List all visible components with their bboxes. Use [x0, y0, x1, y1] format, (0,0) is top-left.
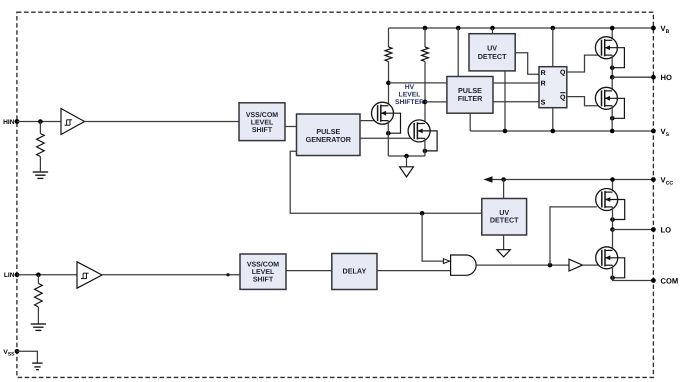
- wire low-side bottom source to COM: [613, 265, 654, 280]
- svg-text:DELAY: DELAY: [343, 266, 367, 275]
- node VCC rail / drain: [610, 177, 615, 182]
- pin VCC: [651, 176, 673, 187]
- svg-text:HIN: HIN: [3, 119, 15, 126]
- node VS rail / UV detect: [503, 129, 508, 134]
- node VS rail / latch: [551, 129, 556, 134]
- wire VB rail to latch top: [552, 28, 554, 67]
- svg-text:SHIFTER: SHIFTER: [395, 99, 424, 106]
- wire HO to high-side bottom MOSFET drain: [611, 77, 613, 91]
- ground (HIN resistor): [33, 172, 48, 178]
- wire VCC rail to low-side top MOSFET drain: [612, 180, 614, 193]
- wire LIN junction down to resistor: [37, 275, 39, 284]
- net VCC rail: [489, 179, 653, 181]
- wire VCC rail to UV detect (low side) top: [503, 180, 505, 199]
- svg-text:S: S: [541, 99, 546, 106]
- pin LIN: [4, 272, 20, 279]
- node on LIN wire: [226, 273, 229, 276]
- transistor low-side output bottom NMOS: [596, 247, 625, 280]
- svg-text:GENERATOR: GENERATOR: [306, 135, 352, 144]
- wire VB rail to high-side top MOSFET drain: [611, 28, 613, 40]
- wire AND output: [476, 264, 569, 266]
- resistor HIN pulldown: [37, 134, 45, 157]
- pin LO: [651, 226, 671, 235]
- node LIN junction: [36, 273, 41, 278]
- svg-text:SHIFT: SHIFT: [252, 127, 273, 134]
- node VS rail / source: [610, 129, 615, 134]
- wire level shift to delay: [286, 270, 332, 272]
- ground (LIN resistor): [31, 324, 46, 330]
- wire pulse generator bottom output to HV level shifter right gate: [360, 137, 414, 139]
- pin VSS: [3, 349, 19, 357]
- resistor HV level shifter right: [422, 47, 429, 62]
- wire UV detect (low) down arrow: [497, 235, 510, 257]
- block UV DETECT (high side): [469, 34, 515, 71]
- AND gate: [451, 255, 477, 275]
- wire LO to low-side bottom MOSFET drain: [612, 230, 614, 251]
- node VB rail to pulse filter: [456, 26, 461, 31]
- transistor HV level shifter left NMOS: [372, 102, 401, 135]
- svg-text:LIN: LIN: [4, 272, 15, 279]
- net VB rail: [389, 27, 654, 29]
- transistor high-side output top NMOS: [595, 37, 624, 70]
- wire low-side top source to LO: [612, 207, 614, 230]
- wire VSS to ground: [17, 351, 37, 363]
- node AND output junction: [548, 263, 553, 268]
- wire high-side top source to HO: [611, 55, 613, 77]
- node VB rail / drain: [610, 26, 615, 31]
- wire latch bottom to VS rail: [552, 108, 554, 131]
- svg-text:VSS/COM: VSS/COM: [247, 260, 279, 268]
- node enable branch junction: [420, 211, 425, 216]
- wire resistor to ground: [39, 157, 41, 173]
- pin HO: [651, 73, 672, 82]
- node LO junction: [610, 227, 615, 232]
- svg-text:COM: COM: [661, 277, 679, 286]
- wire pulse generator top output to HV level shifter left gate: [360, 120, 378, 122]
- net VS rail (internal): [470, 130, 653, 132]
- pin VS: [651, 127, 670, 138]
- wire HIN to input buffer: [17, 121, 61, 123]
- block VSS/COM LEVEL SHIFT (high side): [239, 103, 285, 141]
- label HV LEVEL SHIFTER: [395, 84, 424, 106]
- wire pulse filter output to latch S: [493, 101, 539, 103]
- wire LIN to input buffer: [17, 274, 77, 276]
- wire left drain to pulse filter input 1: [388, 82, 447, 84]
- block VSS/COM LEVEL SHIFT (low side): [240, 254, 286, 289]
- node VB rail to latch: [551, 26, 556, 31]
- svg-text:LEVEL: LEVEL: [252, 269, 275, 276]
- buffer low-side driver: [569, 259, 583, 271]
- wire latch Qbar to high-side bottom MOSFET gate: [567, 97, 602, 106]
- svg-text:DETECT: DETECT: [490, 216, 519, 225]
- wire pulse filter output to latch R2: [493, 82, 539, 84]
- svg-text:VSS/COM: VSS/COM: [246, 111, 278, 119]
- block UV DETECT (low side): [482, 199, 527, 236]
- schmitt trigger input buffer (LIN): [77, 262, 102, 288]
- block DELAY: [332, 254, 377, 290]
- resistor HV level shifter left: [385, 47, 392, 62]
- node VB rail to right resistor: [423, 26, 428, 31]
- wire level shift to pulse generator: [285, 126, 297, 128]
- transistor HV level shifter right NMOS: [408, 120, 437, 153]
- wire HO line: [612, 76, 653, 78]
- node left drain junction: [386, 81, 391, 86]
- wire pulse filter bottom to VS rail: [469, 113, 471, 131]
- svg-text:Q: Q: [560, 70, 566, 77]
- svg-text:FILTER: FILTER: [458, 94, 483, 103]
- pin VB: [651, 24, 670, 35]
- block PULSE FILTER: [447, 77, 493, 114]
- wire buffer to low-side bottom MOSFET gate: [583, 264, 602, 266]
- wire junction up to low-side top MOSFET gate: [550, 207, 597, 265]
- svg-text:HV: HV: [405, 84, 415, 91]
- ground (VSS): [32, 363, 42, 370]
- svg-text:R: R: [541, 70, 546, 77]
- node VB rail to UV detect: [490, 26, 495, 31]
- svg-text:SHIFT: SHIFT: [253, 276, 274, 283]
- node common rail junction: [404, 154, 409, 159]
- svg-text:DETECT: DETECT: [478, 52, 507, 61]
- wire right NMOS source to common: [424, 138, 426, 156]
- wire branch down to AND gate top input: [422, 213, 445, 261]
- wire buffer to VSS/COM level shift (high side): [85, 121, 240, 123]
- wire VB rail to left level-shift resistor: [388, 28, 390, 47]
- wire resistor to right HV MOSFET drain: [424, 62, 426, 124]
- pin HIN: [3, 119, 19, 126]
- transistor high-side output bottom NMOS: [595, 87, 624, 120]
- schmitt trigger input buffer (HIN): [61, 109, 85, 135]
- svg-text:Q: Q: [560, 94, 566, 101]
- wire VB rail to pulse filter top: [457, 28, 459, 77]
- wire VB rail to UV detect top: [492, 28, 494, 34]
- transistor low-side output top NMOS: [596, 189, 625, 222]
- wire resistor to ground: [37, 307, 39, 324]
- wire latch Q to high-side top MOSFET gate: [567, 55, 602, 72]
- svg-text:LO: LO: [661, 226, 672, 235]
- node right drain junction: [423, 100, 428, 105]
- wire UV detect bottom to VS rail: [504, 71, 506, 131]
- svg-text:HO: HO: [661, 73, 672, 82]
- arrowhead at AND gate input: [443, 259, 449, 264]
- ground arrow (level shifter common): [400, 156, 414, 177]
- svg-text:R: R: [541, 81, 546, 88]
- svg-text:LEVEL: LEVEL: [251, 120, 274, 127]
- block PULSE GENERATOR: [297, 114, 361, 156]
- node HIN junction: [38, 119, 43, 124]
- wire VB rail to right level-shift resistor: [424, 28, 426, 47]
- node HO junction: [610, 75, 615, 80]
- pin COM: [651, 277, 678, 286]
- wire LO line: [613, 229, 654, 231]
- wire buffer to VSS/COM level shift (low side): [102, 274, 240, 276]
- wire pulse generator enable from UV detect (low side): [290, 151, 482, 213]
- svg-text:LEVEL: LEVEL: [399, 92, 421, 99]
- resistor LIN pulldown: [35, 283, 43, 307]
- node VCC rail / UV detect: [501, 177, 506, 182]
- wire right drain to pulse filter input 2: [425, 101, 447, 103]
- wire HIN junction down to resistor: [39, 122, 41, 134]
- wire level shifter common rail: [388, 155, 425, 157]
- arrowhead VCC rail pointing left: [484, 176, 493, 183]
- wire UV detect output to latch R: [515, 53, 539, 74]
- wire high-side bottom source to VS rail: [611, 106, 613, 131]
- wire delay to AND gate bottom input: [377, 270, 451, 272]
- wire left NMOS source to common: [387, 121, 389, 156]
- wire resistor to left HV MOSFET drain: [388, 62, 390, 106]
- latch RS flip-flop: [539, 67, 567, 108]
